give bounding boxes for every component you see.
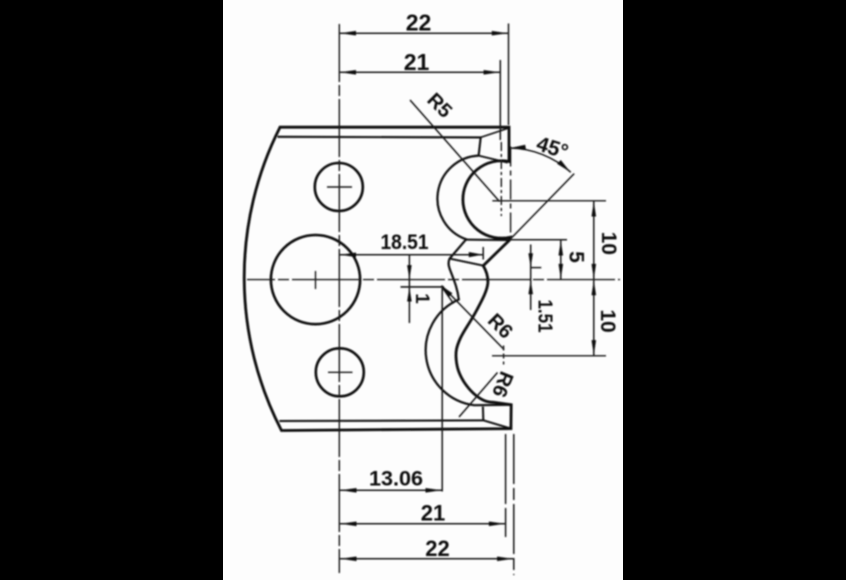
dim 21 top line [339, 71, 500, 73]
ext line 21 bottom [505, 434, 507, 537]
arrow 22 bottom left [341, 557, 357, 562]
arrow R6 leader tip [441, 286, 452, 297]
tick 18.51 right [482, 247, 484, 260]
R5 horizontal centerline [492, 200, 606, 202]
R5 centre vertical dashes [500, 142, 502, 216]
svg-text:21: 21 [404, 49, 430, 75]
foot bottom connector [483, 420, 511, 428]
svg-text:1.51: 1.51 [534, 300, 556, 333]
vertical hole centerline [338, 24, 340, 573]
R6 horizontal centerline [492, 355, 606, 357]
svg-text:1: 1 [411, 293, 432, 304]
knife back R5 arc [426, 156, 511, 406]
R6 centre vertical tick [503, 346, 505, 365]
arrow 13.06 left [341, 488, 357, 493]
tick at D level [531, 267, 541, 269]
45 deg diagonal [510, 174, 575, 240]
svg-text:22: 22 [406, 10, 432, 36]
ext line 13.06 right [441, 288, 443, 492]
arrow 1 upper points down [407, 265, 412, 279]
arrow 5 top [559, 241, 564, 256]
horizontal part centerline [247, 279, 620, 281]
V-notch connector [466, 239, 509, 242]
dim 10 vertical line (shared both) [593, 201, 595, 356]
arrow 22 bottom right [497, 557, 513, 562]
45 deg arc [510, 148, 571, 172]
back foot corner vertical [482, 407, 484, 421]
ref line y=286.9 [401, 286, 445, 288]
centre bore [271, 235, 360, 324]
arrow 21 top right [484, 70, 500, 75]
arrow 18.51 right [469, 252, 483, 257]
arrow 45 arc lower end [557, 160, 570, 172]
tooth chamfer connector [450, 259, 483, 266]
knife front profile outline [244, 127, 511, 430]
top hole cross tick [327, 186, 352, 188]
white drawing field [223, 0, 623, 580]
dim 1.51 vertical line [530, 245, 532, 311]
dim 22 bottom line [340, 558, 514, 560]
R5 leader line [410, 100, 500, 202]
arrow 1.51 lower points up [528, 280, 533, 294]
right edge vertical dashed extension [510, 147, 512, 240]
bottom mounting hole [316, 348, 364, 396]
svg-text:10: 10 [596, 309, 619, 332]
arrow 1 lower points up [407, 288, 412, 302]
arrow 18.51 left [340, 253, 356, 258]
centre bore vertical tick [315, 271, 317, 289]
svg-text:13.06: 13.06 [369, 467, 423, 490]
R6 upper leader line [442, 286, 505, 350]
arrow 22 top left [340, 31, 356, 36]
arrow 10 upper bottom [592, 264, 597, 279]
arrow 21 bottom right [489, 522, 505, 527]
dim 13.06 line [340, 489, 442, 491]
top chamfer connector lower [479, 156, 508, 163]
arrow 5 bottom [559, 264, 564, 279]
R6 lower leader line [459, 373, 498, 418]
ext line 22 bottom [513, 434, 515, 575]
dim 1 vertical line [408, 255, 410, 323]
dim 21 bottom line [340, 523, 506, 525]
arrow 13.06 right [426, 488, 442, 493]
arrow 45 arc upper end [510, 145, 526, 150]
svg-text:5: 5 [565, 251, 588, 263]
ext line 21 top right [499, 60, 501, 140]
ref line y=239.8 from vertex [510, 239, 568, 241]
arrow 22 top right [492, 31, 508, 36]
ext line 22 top right [508, 24, 510, 126]
svg-text:18.51: 18.51 [381, 231, 429, 254]
arrow 21 bottom left [341, 522, 357, 527]
arrow 10 lower bottom [592, 340, 597, 355]
arrow 10 lower top [592, 280, 597, 295]
arrow 21 top left [340, 70, 356, 75]
svg-text:10: 10 [597, 232, 620, 255]
bottom hole cross tick [328, 371, 353, 373]
svg-text:21: 21 [421, 501, 445, 526]
dim 22 top line [339, 32, 508, 34]
svg-text:22: 22 [425, 536, 449, 561]
arrow 10 upper top [592, 202, 597, 217]
dim 5 vertical line [560, 240, 562, 280]
top chamfer connector upper [481, 128, 509, 137]
knife back (bevel) top edge [278, 137, 481, 156]
dim 18.51 line [339, 254, 483, 256]
pointer diagonal below ref line [442, 288, 453, 304]
top mounting hole [315, 163, 363, 211]
back bottom edge [279, 419, 483, 422]
arrow 1.51 upper points down [528, 253, 533, 267]
